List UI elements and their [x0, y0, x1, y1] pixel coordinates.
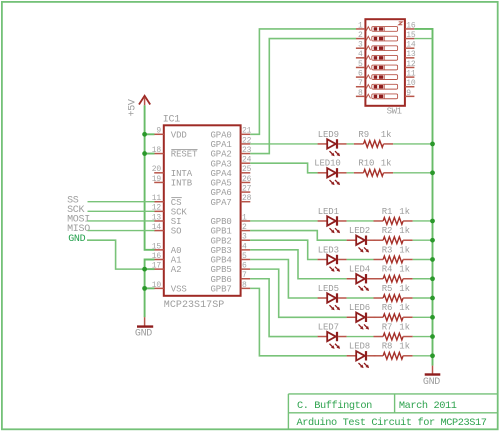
+5V supply symbol [139, 96, 150, 106]
svg-text:LED3: LED3 [318, 245, 339, 255]
svg-text:1: 1 [242, 213, 247, 222]
wire R9 to right bus [393, 143, 432, 145]
svg-text:1k: 1k [381, 159, 392, 169]
SW1 pin 5 [356, 60, 366, 69]
svg-text:C. Buffington: C. Buffington [297, 400, 372, 412]
wire GPB0 pin1 to LED1 [250, 220, 318, 222]
IC1 reference designator label [163, 114, 180, 125]
wire SW1 pin16 to right bus [414, 29, 432, 366]
IC1 pin 18 (RESET) [152, 146, 198, 160]
R8 label [382, 342, 393, 352]
svg-text:GPB7: GPB7 [211, 284, 232, 294]
svg-text:6: 6 [358, 70, 363, 79]
LED LED6 [347, 313, 376, 330]
ground symbol right bus [423, 366, 440, 388]
IC1 pin 11 (CS) [152, 194, 182, 208]
wire LED1 cathode to R1 [347, 220, 374, 222]
LED LED2 [347, 236, 376, 253]
wire R4 to right bus [413, 278, 433, 280]
wire R5 to right bus [413, 297, 433, 299]
wire VSS to GND vertical [145, 287, 155, 289]
svg-text:GND: GND [68, 234, 85, 245]
svg-text:8: 8 [358, 89, 363, 98]
SW1 pin 3 [356, 41, 366, 50]
switch SW1 DIP-8 body [365, 19, 405, 106]
svg-text:GPA7: GPA7 [211, 198, 232, 208]
svg-text:R1: R1 [382, 207, 393, 217]
IC1 pin 26 (GPA5) [211, 175, 252, 189]
LED4 label [349, 265, 370, 275]
R2 label [382, 226, 393, 236]
wire GPB2 to LED3 (jog down at x=307.7) [250, 240, 318, 259]
svg-text:IC1: IC1 [163, 114, 180, 125]
IC1 pin 20 (INTA) [152, 165, 193, 179]
junction bus/R3 [430, 257, 435, 262]
LED1 label [318, 207, 339, 217]
svg-text:2: 2 [358, 31, 363, 40]
wire +5V vertical from supply to A0 row [145, 105, 155, 250]
LED LED4 [347, 274, 376, 291]
svg-text:SW1: SW1 [387, 106, 402, 116]
svg-text:1k: 1k [399, 284, 410, 294]
svg-text:9: 9 [406, 89, 411, 98]
SW1 reference designator label [387, 106, 402, 116]
svg-text:R3: R3 [382, 245, 393, 255]
SW1 pin 10 [405, 79, 416, 88]
IC1 pin 13 (SI) [152, 213, 182, 227]
IC1 pin 7 (GPB6) [211, 271, 251, 285]
svg-text:+5V: +5V [127, 99, 138, 116]
svg-text:INTB: INTB [171, 179, 193, 189]
LED8 label [349, 342, 370, 352]
R1 label [382, 207, 393, 217]
svg-text:R7: R7 [382, 322, 393, 332]
SW1 pin 7 [356, 79, 366, 88]
R6 label [382, 303, 393, 313]
IC1 pin 25 (GPA4) [211, 165, 252, 179]
wire LED9 cathode to R9 [347, 143, 354, 145]
R9 value 1k [381, 130, 392, 140]
SW1 pin 11 [405, 70, 416, 79]
svg-text:7: 7 [358, 79, 363, 88]
svg-text:1k: 1k [399, 245, 410, 255]
SW1 switch element 6 [366, 75, 398, 80]
svg-text:GPB3: GPB3 [211, 246, 232, 256]
wire R8 to right bus [413, 355, 433, 357]
svg-text:GPB6: GPB6 [211, 275, 232, 285]
svg-text:26: 26 [242, 175, 252, 184]
R6 value 1k [399, 303, 410, 313]
wire LED10 cathode to R10 [347, 172, 354, 174]
IC1 pin 23 (GPA2) [211, 146, 252, 160]
wire R1 to right bus [413, 220, 433, 222]
svg-text:3: 3 [358, 41, 363, 50]
svg-text:1k: 1k [399, 265, 410, 275]
svg-text:LED9: LED9 [318, 130, 339, 140]
wire LED3 cathode to R3 [347, 258, 374, 260]
title date text [399, 400, 457, 412]
junction bus/R6 [430, 315, 435, 320]
LED LED1 [318, 216, 347, 233]
svg-text:10: 10 [406, 79, 416, 88]
IC1 pin 28 (GPA7) [211, 194, 252, 208]
R9 label [358, 130, 369, 140]
SW1 switch element 7 [366, 84, 398, 89]
svg-text:LED6: LED6 [349, 303, 370, 313]
wire GPB6 to LED7 (jog down at x=269.1) [250, 279, 318, 337]
SW1 rotated mark near pin 16 [399, 22, 403, 25]
svg-text:9: 9 [156, 127, 161, 136]
resistor R10 [354, 169, 393, 176]
R2 value 1k [399, 226, 410, 236]
svg-text:25: 25 [242, 165, 252, 174]
svg-text:1k: 1k [399, 226, 410, 236]
svg-text:A2: A2 [171, 265, 182, 275]
R7 value 1k [399, 322, 410, 332]
wire R10 to right bus [393, 172, 432, 174]
svg-text:GPA3: GPA3 [211, 159, 232, 169]
junction GND/VSS [142, 286, 147, 291]
title author text [297, 400, 372, 412]
svg-text:20: 20 [152, 165, 162, 174]
resistor R2 [374, 237, 413, 244]
R5 label [382, 284, 393, 294]
SW1 pin 14 [405, 41, 416, 50]
wire MOSI to IC1 [88, 220, 155, 222]
svg-text:GPA5: GPA5 [211, 179, 232, 189]
svg-text:LED1: LED1 [318, 207, 339, 217]
wire A1 to GND vertical [145, 259, 155, 317]
SW1 switch element 8 [366, 94, 398, 99]
IC1 pin 12 (SCK) [152, 204, 188, 218]
SW1 pin 1 [356, 21, 366, 30]
resistor R1 [374, 218, 413, 225]
svg-text:GPA0: GPA0 [211, 130, 232, 140]
R7 label [382, 322, 393, 332]
IC1 pin 5 (GPB4) [211, 252, 251, 266]
ground symbol below IC [135, 317, 153, 339]
junction bus/R9 [430, 142, 435, 147]
wire GPA2 pin23 to SW1 pin 2 [250, 39, 356, 154]
svg-text:23: 23 [242, 146, 252, 155]
net label MISO [67, 224, 90, 235]
svg-text:R2: R2 [382, 226, 393, 236]
R3 value 1k [399, 245, 410, 255]
svg-text:5: 5 [242, 252, 247, 261]
svg-text:R8: R8 [382, 342, 393, 352]
svg-text:R5: R5 [382, 284, 393, 294]
net label GND (green) [68, 234, 85, 245]
wire GPA0 pin21 to SW1 pin 1 [250, 29, 356, 134]
svg-text:24: 24 [242, 156, 252, 165]
svg-text:GPA4: GPA4 [211, 169, 232, 179]
svg-text:VSS: VSS [171, 284, 187, 294]
wire SCK to IC1 [88, 210, 155, 212]
junction bus/R5 [430, 296, 435, 301]
net label SS [67, 195, 79, 206]
svg-text:GPB5: GPB5 [211, 265, 232, 275]
wire R6 to right bus [413, 316, 433, 318]
svg-text:4: 4 [358, 50, 363, 59]
LED9 label [318, 130, 339, 140]
IC1 pin 22 (GPA1) [211, 136, 252, 150]
svg-text:1k: 1k [399, 303, 410, 313]
svg-text:1: 1 [358, 21, 363, 30]
SW1 pin 12 [405, 60, 416, 69]
+5V text label (rotated) [127, 99, 138, 116]
wire GPB7 to LED8 (jog down at x=259.4) [250, 288, 346, 355]
svg-text:GPB1: GPB1 [211, 227, 232, 237]
LED LED10 [318, 168, 347, 185]
svg-text:March 2011: March 2011 [399, 400, 457, 412]
IC1 pin 15 (A0) [152, 242, 182, 256]
wire GPB5 to LED6 (jog down at x=278.7) [250, 269, 346, 317]
svg-text:INTA: INTA [171, 169, 193, 179]
IC1 pin 19 (INTB) [152, 175, 193, 189]
IC1 pin 3 (GPB2) [211, 233, 251, 247]
svg-text:LED7: LED7 [318, 322, 339, 332]
IC1 pin 4 (GPB3) [211, 242, 251, 256]
LED6 label [349, 303, 370, 313]
IC1 pin 9 (VDD) [154, 127, 187, 141]
svg-text:1k: 1k [399, 342, 410, 352]
wire MISO to IC1 [88, 230, 155, 232]
SW1 pin 16 [405, 21, 416, 30]
svg-text:LED5: LED5 [318, 284, 339, 294]
svg-text:SI: SI [171, 217, 182, 227]
resistor R6 [374, 314, 413, 321]
IC1 pin 21 (GPA0) [211, 127, 252, 141]
junction GND/A2 [142, 267, 147, 272]
wire GPB4 to LED5 (jog down at x=288.4) [250, 259, 318, 298]
svg-text:LED10: LED10 [314, 159, 341, 169]
R3 label [382, 245, 393, 255]
IC IC1 MCP23S17 body [164, 125, 241, 295]
wire GPB1 to LED2 (jog down at x=317.3) [250, 231, 346, 241]
svg-text:LED2: LED2 [349, 226, 370, 236]
LED5 label [318, 284, 339, 294]
SW1 pin 2 [356, 31, 366, 40]
LED10 label [314, 159, 341, 169]
svg-text:VDD: VDD [171, 130, 187, 140]
IC1 pin 6 (GPB5) [211, 262, 251, 276]
svg-text:7: 7 [242, 271, 247, 280]
SW1 pin 6 [356, 70, 366, 79]
junction bus/R4 [430, 276, 435, 281]
IC1 pin 17 (A2) [152, 262, 182, 276]
junction bus/R1 [430, 219, 435, 224]
net label MOSI [67, 215, 90, 226]
R5 value 1k [399, 284, 410, 294]
svg-text:R6: R6 [382, 303, 393, 313]
R1 value 1k [399, 207, 410, 217]
svg-text:GPA2: GPA2 [211, 150, 232, 160]
wire SS to IC1 [88, 201, 155, 203]
LED LED9 [318, 139, 347, 156]
IC1 pin 14 (SO) [152, 223, 182, 237]
svg-text:LED8: LED8 [349, 342, 370, 352]
LED7 label [318, 322, 339, 332]
wire +5V to RESET pin 18 [145, 153, 155, 155]
junction +5V/VDD [142, 132, 147, 137]
svg-text:MCP23S17SP: MCP23S17SP [164, 300, 225, 311]
IC1 pin 27 (GPA6) [211, 184, 252, 198]
junction bus/R7 [430, 334, 435, 339]
IC1 pin 24 (GPA3) [211, 156, 252, 170]
IC1 pin 1 (GPB0) [211, 213, 251, 227]
SW1 pin 8 [356, 89, 366, 98]
svg-text:R9: R9 [358, 130, 369, 140]
svg-text:GND: GND [135, 329, 152, 340]
IC1 value label MCP23S17SP [164, 300, 225, 311]
wire R3 to right bus [413, 258, 433, 260]
LED3 label [318, 245, 339, 255]
junction bus/R8 [430, 353, 435, 358]
resistor R9 [354, 141, 393, 148]
wire A2 to GND vertical [145, 268, 155, 270]
resistor R8 [374, 352, 413, 359]
wire GPA1 pin22 to LED9 [250, 143, 318, 145]
svg-text:Arduino Test Circuit for MCP23: Arduino Test Circuit for MCP23S17 [297, 417, 487, 429]
LED LED8 [347, 351, 376, 368]
title description text [297, 417, 487, 429]
svg-text:R10: R10 [358, 159, 374, 169]
svg-text:5: 5 [358, 60, 363, 69]
svg-text:27: 27 [242, 184, 252, 193]
junction bus/R10 [430, 170, 435, 175]
R4 label [382, 265, 393, 275]
SW1 switch element 2 [366, 36, 398, 41]
LED LED5 [318, 293, 347, 310]
resistor R4 [374, 275, 413, 282]
R10 value 1k [381, 159, 392, 169]
svg-text:SCK: SCK [171, 207, 188, 217]
svg-text:28: 28 [242, 194, 252, 203]
SW1 pin 15 [405, 31, 416, 40]
svg-text:GPB0: GPB0 [211, 217, 232, 227]
svg-text:R4: R4 [382, 265, 393, 275]
svg-text:12: 12 [406, 60, 416, 69]
SW1 switch element 5 [366, 65, 398, 70]
wire GND net label to A2 row [87, 240, 145, 269]
junction bus/R2 [430, 238, 435, 243]
LED LED3 [318, 255, 347, 272]
LED2 label [349, 226, 370, 236]
wire LED7 cathode to R7 [347, 336, 374, 338]
R4 value 1k [399, 265, 410, 275]
svg-text:CS: CS [171, 198, 182, 208]
svg-text:2: 2 [242, 223, 247, 232]
svg-text:LED4: LED4 [349, 265, 370, 275]
svg-text:3: 3 [242, 233, 247, 242]
title block [288, 394, 497, 429]
svg-text:GPA1: GPA1 [211, 140, 232, 150]
resistor R7 [374, 333, 413, 340]
svg-text:1k: 1k [399, 322, 410, 332]
SW1 pin 13 [405, 50, 416, 59]
svg-text:GPB4: GPB4 [211, 256, 232, 266]
resistor R5 [374, 295, 413, 302]
IC1 pin 2 (GPB1) [211, 223, 251, 237]
svg-text:RESET: RESET [171, 150, 198, 160]
wire SW1 pin15 to right bus [414, 38, 432, 40]
wire R7 to right bus [413, 336, 433, 338]
svg-text:GND: GND [423, 377, 440, 388]
wire +5V to VDD pin 9 [145, 133, 155, 135]
wire GPA3 pin24 to LED10 (jog down) [250, 163, 318, 173]
SW1 pin 9 [405, 89, 415, 98]
R10 label [358, 159, 374, 169]
wire LED5 cathode to R5 [347, 297, 374, 299]
svg-text:13: 13 [406, 50, 416, 59]
IC1 pin 10 (VSS) [152, 281, 187, 295]
svg-text:8: 8 [242, 281, 247, 290]
SW1 switch element 1 [366, 27, 398, 32]
resistor R3 [374, 256, 413, 263]
SW1 switch element 3 [366, 46, 398, 51]
svg-text:11: 11 [406, 70, 416, 79]
svg-text:A0: A0 [171, 246, 182, 256]
junction +5V/RESET [142, 151, 147, 156]
R8 value 1k [399, 342, 410, 352]
svg-text:A1: A1 [171, 256, 182, 266]
net label SCK [67, 205, 84, 216]
svg-text:19: 19 [152, 175, 162, 184]
svg-text:22: 22 [242, 136, 252, 145]
svg-text:6: 6 [242, 262, 247, 271]
LED LED7 [318, 332, 347, 349]
IC1 pin 8 (GPB7) [211, 281, 251, 295]
svg-text:21: 21 [242, 127, 252, 136]
svg-text:GPA6: GPA6 [211, 188, 232, 198]
svg-text:14: 14 [406, 41, 416, 50]
IC1 pin 16 (A1) [152, 252, 182, 266]
svg-text:GPB2: GPB2 [211, 236, 232, 246]
svg-text:1k: 1k [399, 207, 410, 217]
wire GPB3 to LED4 (jog down at x=298.0) [250, 250, 346, 279]
SW1 switch element 4 [366, 55, 398, 60]
svg-text:1k: 1k [381, 130, 392, 140]
svg-text:SO: SO [171, 227, 182, 237]
svg-text:4: 4 [242, 242, 247, 251]
wire R2 to right bus [413, 239, 433, 241]
SW1 pin 4 [356, 50, 366, 59]
